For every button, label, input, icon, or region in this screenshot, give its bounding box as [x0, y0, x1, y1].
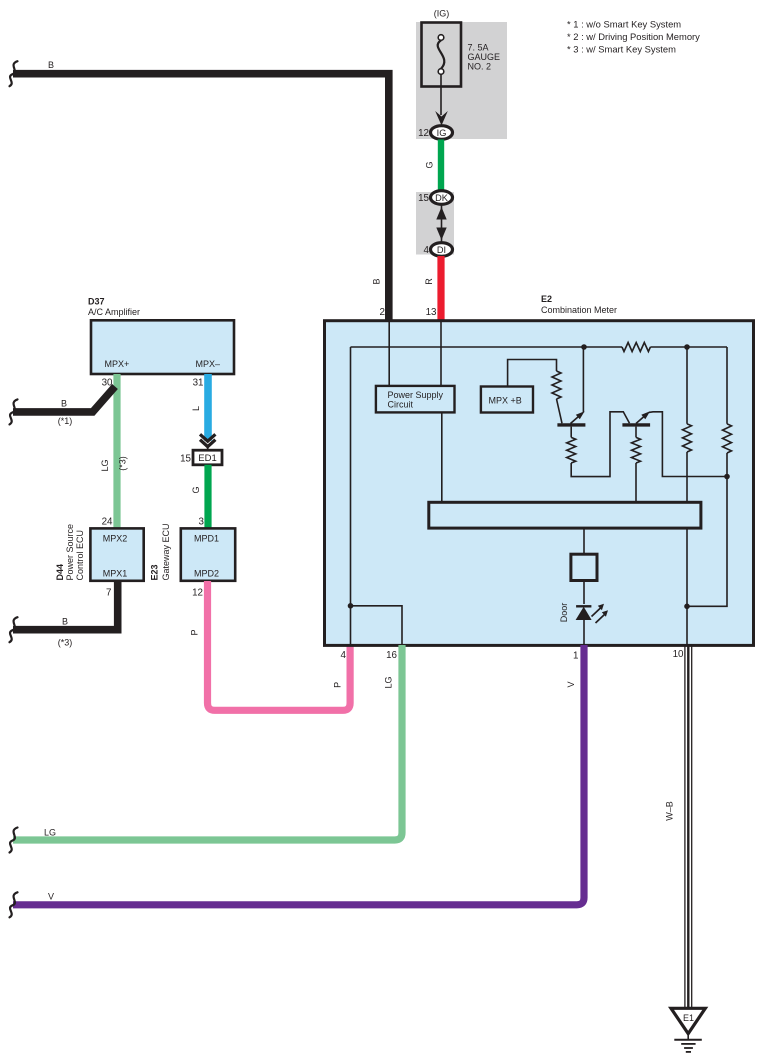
label G	[425, 161, 435, 168]
label B vertical	[372, 278, 382, 284]
label W-B	[665, 801, 675, 821]
svg-text:Power Supply: Power Supply	[388, 390, 444, 400]
internal top rail right	[650, 346, 727, 348]
svg-text:MPX2: MPX2	[103, 534, 128, 544]
wire L from D37 MPX-	[204, 374, 212, 441]
wire LG from E2 pin 16	[13, 645, 402, 840]
pin 1 E2	[573, 651, 578, 662]
svg-text:IG: IG	[437, 128, 447, 138]
wire G from ED1 to E23 MPD1	[204, 465, 211, 528]
svg-text:G: G	[425, 161, 435, 168]
internal rail branch to pin 16	[351, 606, 403, 644]
svg-text:12: 12	[192, 588, 203, 599]
svg-text:MPX+: MPX+	[105, 359, 130, 369]
pin 15 ED1	[180, 454, 191, 465]
pin 3	[199, 517, 205, 528]
svg-text:Combination Meter: Combination Meter	[541, 305, 617, 315]
resistor R emitter Q2	[632, 437, 641, 463]
svg-text:* 1 : w/o Smart Key System: * 1 : w/o Smart Key System	[567, 19, 681, 30]
connector DK	[431, 191, 453, 205]
svg-text:4: 4	[341, 650, 347, 661]
label LG horizontal	[44, 828, 56, 838]
wire LED to pin 1	[583, 620, 585, 644]
wire internal pin2 to power supply circuit	[388, 322, 390, 386]
break symbol top B wire	[10, 61, 18, 86]
pin 13	[426, 307, 437, 318]
label G	[191, 486, 201, 493]
LED Door	[576, 604, 608, 623]
pin 15	[418, 193, 429, 204]
svg-text:P: P	[333, 682, 343, 688]
wire R from DI to E2 pin 13	[437, 256, 444, 320]
svg-text:(*1): (*1)	[58, 416, 73, 426]
wire pin10 internal	[686, 528, 688, 644]
bus bar block	[429, 502, 701, 528]
svg-text:LG: LG	[384, 676, 394, 688]
svg-text:LG: LG	[100, 459, 110, 471]
label V vertical at pin1	[566, 681, 576, 687]
svg-text:Power Source: Power Source	[65, 524, 75, 581]
svg-text:Gateway ECU: Gateway ECU	[161, 523, 171, 580]
driver block square	[571, 554, 597, 580]
pin 7	[106, 588, 111, 599]
label V horizontal	[48, 892, 54, 902]
fuse F1 7.5A GAUGE NO.2	[422, 23, 462, 87]
resistor R emitter Q1	[567, 437, 576, 463]
svg-text:MPX +B: MPX +B	[489, 396, 522, 406]
svg-text:E1: E1	[683, 1013, 694, 1023]
svg-text:(*3): (*3)	[118, 456, 128, 471]
pin 12 E23	[192, 588, 203, 599]
wire Q1 emitter to Q2 base	[571, 412, 629, 477]
wire pullup branch right	[726, 347, 728, 424]
svg-text:MPX–: MPX–	[196, 359, 221, 369]
svg-text:Door: Door	[559, 603, 569, 623]
label B (*1)	[58, 399, 73, 427]
svg-text:W–B: W–B	[665, 801, 675, 821]
svg-text:L: L	[191, 406, 201, 411]
wire fuse output lead	[440, 74, 442, 115]
break symbol B(*3)	[10, 617, 18, 642]
pin 24	[102, 517, 113, 528]
break symbol B(*1)	[10, 399, 18, 424]
connector ED1	[193, 450, 222, 465]
svg-text:A/C Amplifier: A/C Amplifier	[88, 307, 140, 317]
wire resistor to Q1 base	[557, 399, 563, 423]
svg-text:E2: E2	[541, 294, 552, 304]
arrow into connector IG	[435, 111, 448, 126]
svg-text:3: 3	[199, 517, 205, 528]
svg-text:P: P	[190, 629, 200, 635]
label L	[191, 406, 201, 411]
transistor Q1	[557, 347, 585, 437]
internal top rail	[351, 346, 623, 348]
junction dot left rail	[348, 603, 354, 609]
svg-text:B: B	[62, 617, 68, 627]
pin 4	[424, 245, 430, 256]
svg-text:B: B	[61, 399, 67, 409]
connector DI	[431, 243, 453, 257]
wire LG from D37 MPX+ to D44 MPX2	[113, 374, 120, 528]
svg-text:DI: DI	[437, 245, 446, 255]
wire power supply to bus	[441, 412, 443, 502]
pin 10 E2	[673, 649, 684, 660]
svg-text:7: 7	[106, 588, 111, 599]
svg-text:R: R	[424, 278, 434, 285]
junction dot top rail B	[684, 344, 690, 350]
wire B (*3) from D44 MPX1	[13, 581, 118, 630]
wire Q2 emitter to bus	[635, 463, 637, 502]
component E23 Gateway ECU	[150, 523, 236, 580]
pin 30	[102, 378, 113, 389]
wire internal pin13 to power supply circuit	[440, 322, 442, 386]
label P near E2	[333, 682, 343, 688]
svg-text:16: 16	[386, 650, 397, 661]
break symbol LG	[10, 828, 18, 853]
label R	[424, 278, 434, 285]
wire V from E2 pin 1	[13, 645, 584, 905]
svg-text:DK: DK	[435, 193, 449, 203]
transistor Q2	[622, 411, 727, 476]
wire driver to LED	[583, 581, 585, 605]
svg-text:24: 24	[102, 517, 113, 528]
resistor R top	[622, 343, 650, 352]
fuse block shading	[416, 22, 507, 255]
wire MPX+B feed	[508, 360, 557, 387]
internal left rail	[350, 347, 352, 644]
wire bus to driver block	[583, 528, 585, 554]
wire R3 to bus	[686, 452, 688, 502]
junction dot collector net	[724, 474, 730, 480]
svg-text:4: 4	[424, 245, 430, 256]
svg-text:D37: D37	[88, 297, 105, 307]
resistor R base Q1	[552, 371, 561, 399]
svg-text:15: 15	[418, 193, 429, 204]
svg-text:E23: E23	[150, 564, 160, 580]
net (IG) label	[434, 9, 450, 19]
svg-text:1: 1	[573, 651, 578, 662]
junction dot pin10 net	[684, 604, 690, 610]
svg-text:2: 2	[380, 307, 385, 318]
pin 2	[380, 307, 385, 318]
label B horizontal	[48, 60, 54, 70]
svg-text:* 2 : w/ Driving Position Memo: * 2 : w/ Driving Position Memory	[567, 31, 700, 42]
resistor R4	[723, 424, 732, 453]
label LG vertical at pin16	[384, 676, 394, 688]
label P near E23	[190, 629, 200, 635]
component MPX +B	[481, 387, 533, 413]
svg-text:12: 12	[418, 128, 429, 139]
svg-text:D44: D44	[55, 564, 65, 581]
wire W-B from E2 pin 10 to ground	[685, 645, 692, 1008]
svg-text:15: 15	[180, 454, 191, 465]
pin 31	[193, 378, 204, 389]
label (*3) vertical	[118, 456, 128, 471]
wire R4 down	[687, 453, 727, 606]
svg-text:MPD2: MPD2	[194, 569, 219, 579]
component Power Supply Circuit	[376, 386, 455, 413]
shield arrow into ED1	[200, 434, 215, 450]
value label 7.5A GAUGE NO.2	[468, 43, 501, 72]
component D44 Power Source Control ECU	[55, 524, 144, 581]
svg-text:B: B	[48, 60, 54, 70]
svg-text:7. 5A: 7. 5A	[468, 43, 489, 53]
svg-text:G: G	[191, 486, 201, 493]
svg-text:(IG): (IG)	[434, 9, 450, 19]
svg-text:(*3): (*3)	[58, 638, 73, 648]
svg-text:MPD1: MPD1	[194, 534, 219, 544]
svg-text:Control ECU: Control ECU	[75, 530, 85, 581]
pin 12	[418, 128, 429, 139]
wire B main feed top	[13, 74, 389, 320]
svg-text:V: V	[566, 681, 576, 687]
wire DK to DI with double arrow	[436, 206, 446, 247]
junction dot top rail A	[581, 344, 587, 350]
connector IG	[431, 126, 453, 140]
wire P from E23 MPD2 to E2 pin 4	[208, 581, 351, 710]
svg-text:10: 10	[673, 649, 684, 660]
svg-text:* 3 : w/ Smart Key System: * 3 : w/ Smart Key System	[567, 44, 676, 55]
svg-text:NO. 2: NO. 2	[468, 62, 492, 72]
ground E1	[671, 1008, 705, 1052]
label Door	[559, 603, 569, 623]
wire B (*1) branch	[13, 387, 115, 412]
label LG vertical	[100, 459, 110, 471]
pin 16 E2	[386, 650, 397, 661]
break symbol V	[10, 892, 18, 917]
svg-text:LG: LG	[44, 828, 56, 838]
svg-text:13: 13	[426, 307, 437, 318]
label B (*3)	[58, 617, 73, 648]
wire pullup branch left	[686, 347, 688, 424]
svg-text:MPX1: MPX1	[103, 569, 128, 579]
svg-text:B: B	[372, 278, 382, 284]
component E2 Combination Meter	[325, 294, 754, 645]
svg-text:Circuit: Circuit	[388, 400, 414, 410]
wire G from IG to DK	[438, 140, 444, 192]
svg-text:GAUGE: GAUGE	[468, 52, 501, 62]
resistor R3	[683, 424, 692, 452]
component D37 A/C Amplifier	[88, 297, 234, 375]
svg-text:31: 31	[193, 378, 204, 389]
svg-text:ED1: ED1	[198, 453, 216, 464]
note legend	[567, 19, 700, 55]
pin 4 E2	[341, 650, 347, 661]
svg-text:V: V	[48, 892, 54, 902]
